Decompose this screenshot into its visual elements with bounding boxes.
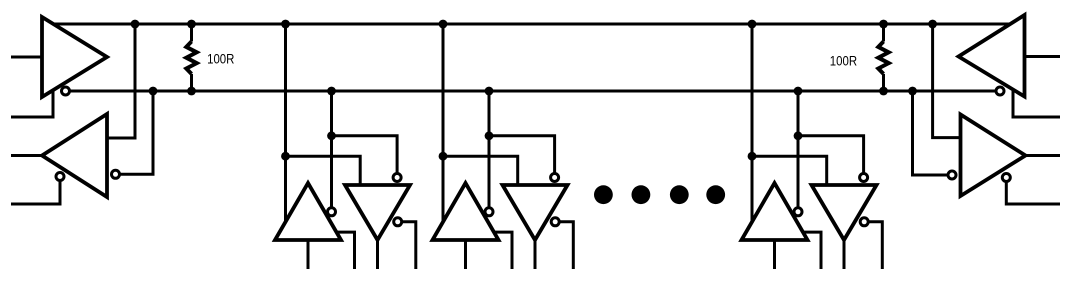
svg-text:100R: 100R bbox=[830, 54, 858, 69]
svg-text:100R: 100R bbox=[207, 51, 235, 66]
